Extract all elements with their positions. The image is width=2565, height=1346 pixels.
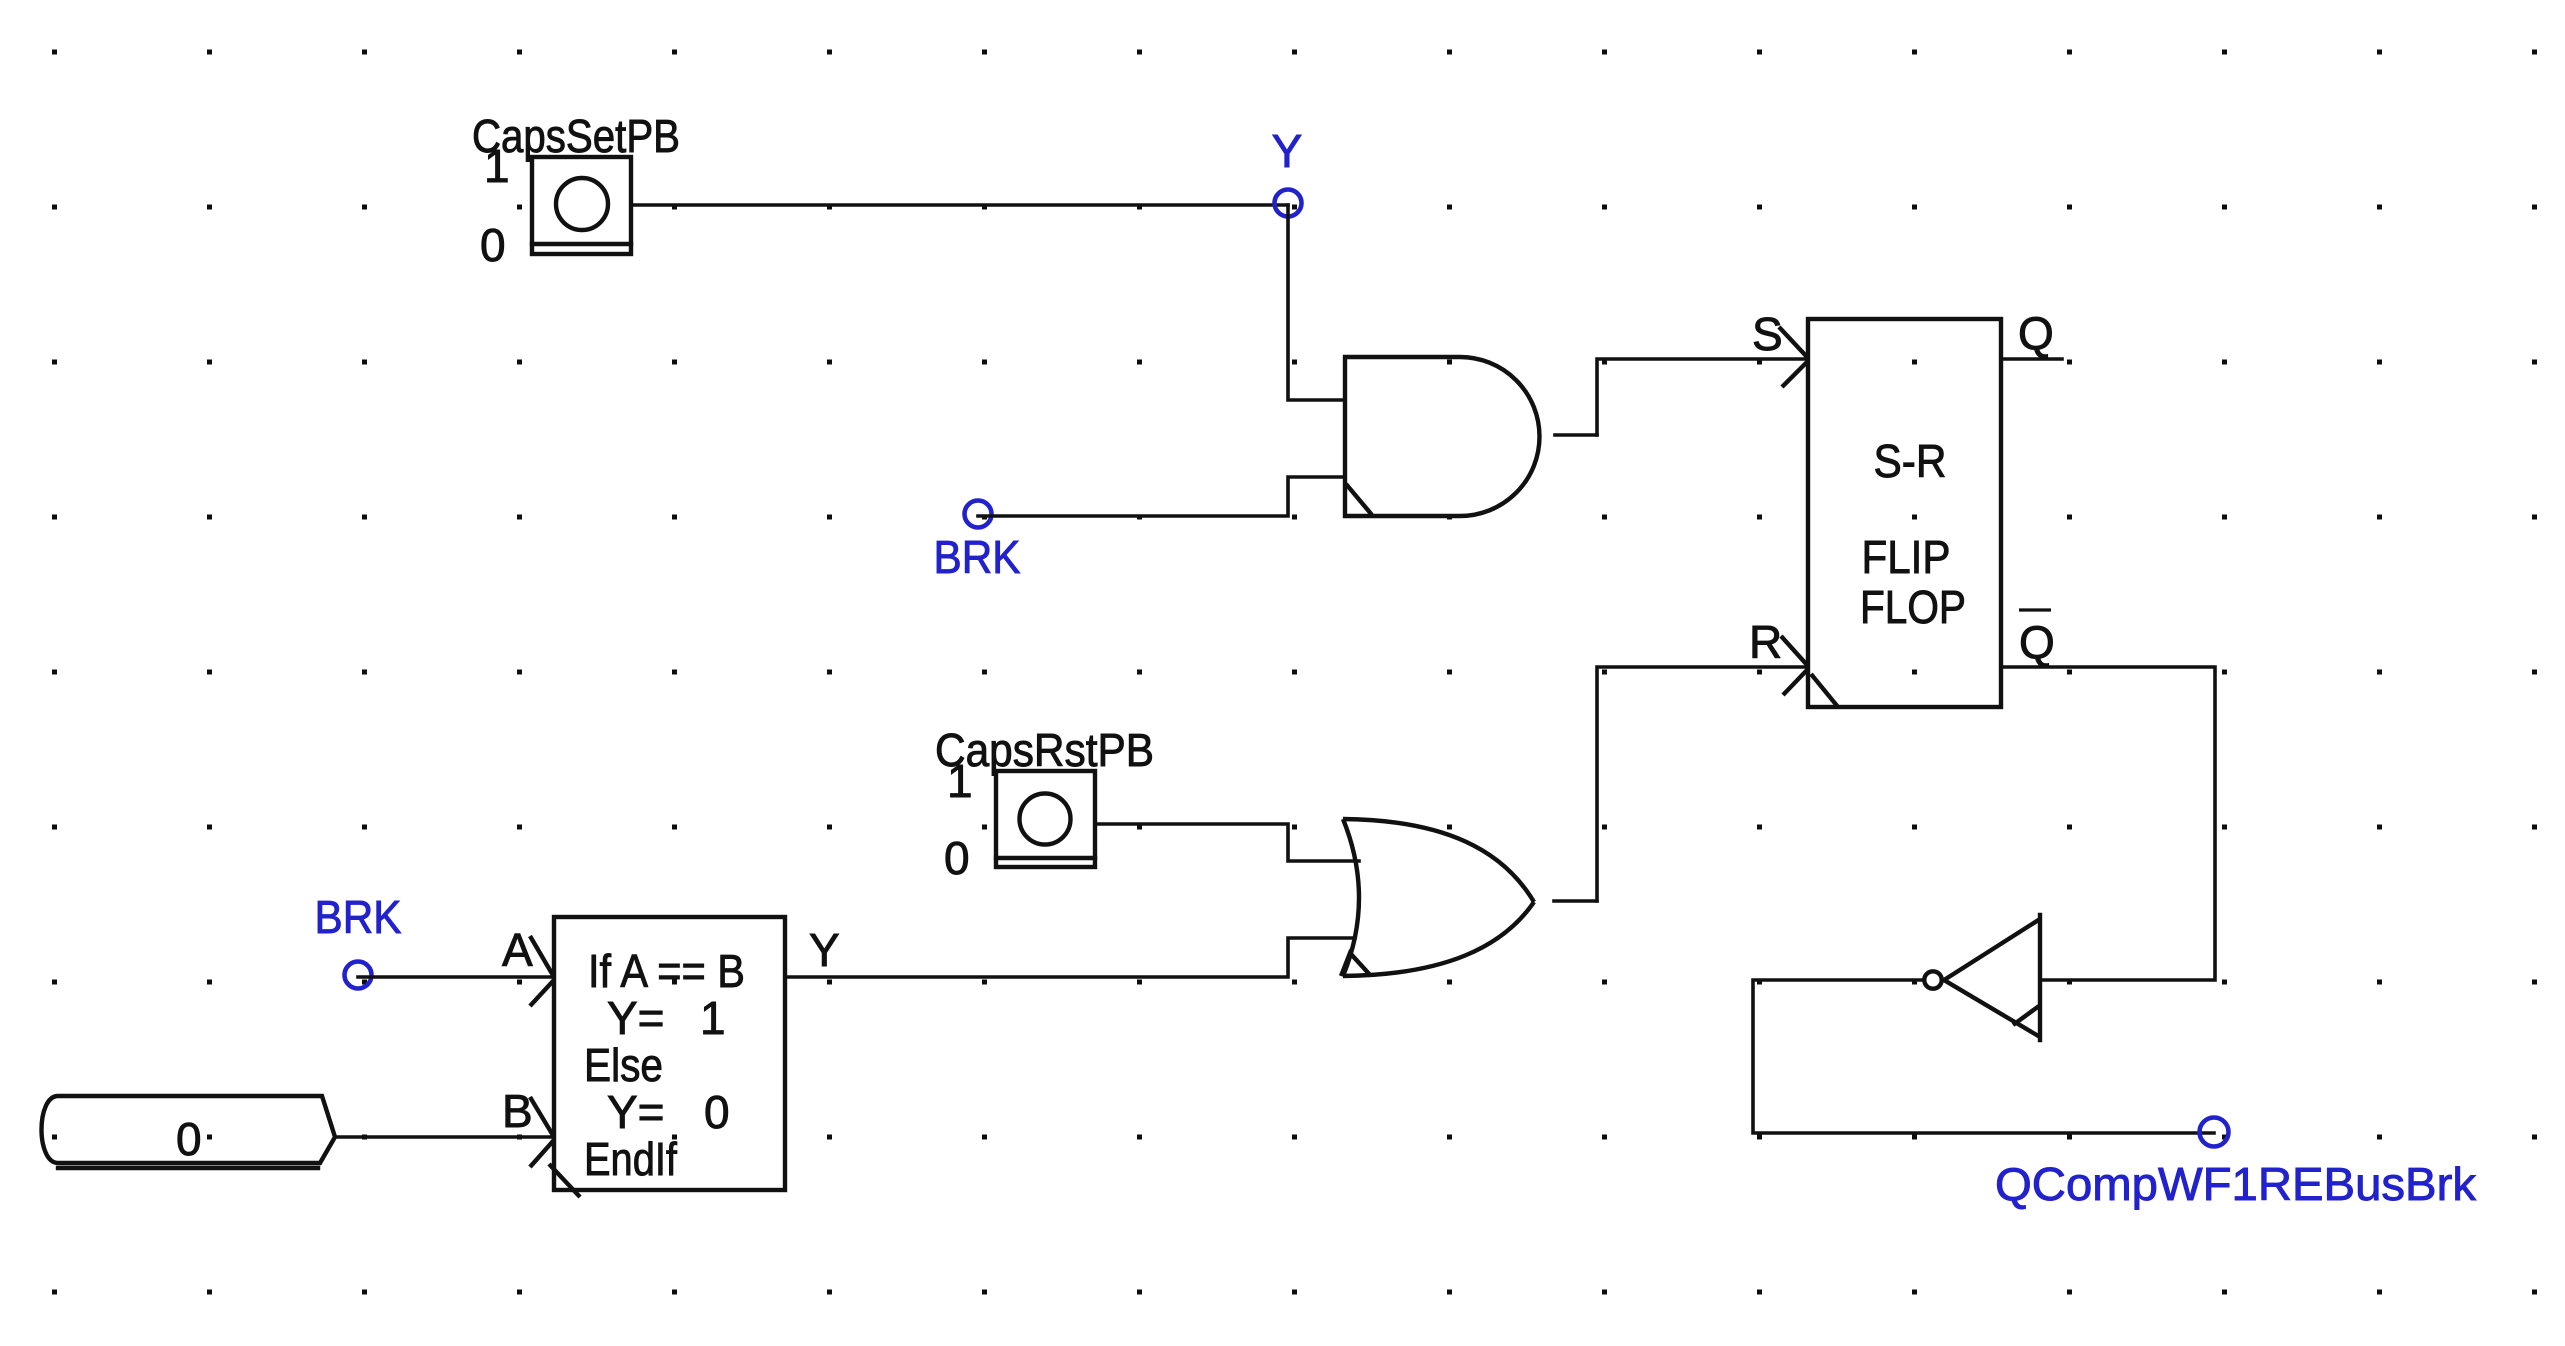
wire CapsSetPB to node Y [631, 203, 1288, 207]
comparator block If A == B [554, 917, 785, 1190]
S-R flip-flop U3 [1808, 319, 2001, 707]
constant 0 [42, 1096, 336, 1163]
svg-text:BRK: BRK [315, 891, 402, 943]
wire node BRK to AND gate lower input [978, 477, 1345, 516]
CapsSetPB body [532, 157, 631, 254]
svg-text:1: 1 [700, 992, 726, 1044]
svg-text:BRK: BRK [934, 531, 1021, 583]
wire node BRK to comparator input A [358, 975, 554, 979]
svg-text:FLIP: FLIP [1862, 531, 1951, 583]
wire flip-flop Q output stub [2001, 357, 2062, 361]
node Y [1275, 190, 1302, 217]
inverter bubble [1924, 971, 1941, 988]
OR gate U2 [1343, 819, 1359, 976]
AND gate U1 [1345, 357, 1539, 516]
svg-text:EndIf: EndIf [584, 1133, 677, 1185]
wire CapsRstPB to OR gate upper input [1095, 824, 1359, 861]
comparator corner tick [549, 1164, 580, 1197]
svg-text:Q: Q [2019, 616, 2055, 668]
svg-text:QCompWF1REBusBrk: QCompWF1REBusBrk [1995, 1158, 2477, 1210]
wire flip-flop Qbar output to inverter input [2001, 667, 2215, 980]
svg-text:Y: Y [809, 924, 840, 976]
CapsRstPB body [996, 771, 1095, 867]
flip-flop corner tick [1811, 674, 1838, 707]
svg-text:1: 1 [947, 755, 973, 807]
wire inverter output to node QCompWF1REBusBrk [1753, 980, 2214, 1133]
wire OR gate output to flip-flop R input [1554, 899, 1597, 903]
svg-text:Q: Q [2018, 307, 2054, 359]
svg-text:0: 0 [944, 832, 970, 884]
node BRK (upper) [965, 501, 992, 528]
svg-text:0: 0 [480, 219, 506, 271]
svg-text:S-R: S-R [1874, 435, 1947, 487]
svg-text:Y=: Y= [607, 992, 665, 1044]
OR gate input corner tick [1341, 953, 1371, 976]
inverter U4 [1944, 919, 2040, 1037]
wire AND gate output to flip-flop S input [1555, 433, 1597, 437]
svg-text:Y: Y [1272, 125, 1303, 177]
inverter corner tick [2013, 1006, 2039, 1025]
svg-text:FLOP: FLOP [1860, 581, 1966, 633]
svg-text:0: 0 [176, 1113, 202, 1165]
svg-text:A: A [502, 924, 533, 976]
wire constant 0 to comparator input B [335, 1135, 554, 1139]
node QCompWF1REBusBrk [2200, 1118, 2229, 1147]
svg-text:0: 0 [704, 1086, 730, 1138]
svg-text:S: S [1752, 308, 1783, 360]
svg-text:1: 1 [484, 140, 510, 192]
node BRK (lower) [345, 962, 372, 989]
wire node Y to AND gate upper input [1288, 205, 1345, 400]
wire comparator output Y to OR gate lower input [785, 938, 1355, 977]
svg-text:Else: Else [584, 1039, 663, 1091]
svg-text:Y=: Y= [607, 1086, 665, 1138]
svg-text:If A == B: If A == B [588, 945, 745, 997]
svg-text:B: B [502, 1085, 533, 1137]
svg-text:R: R [1749, 616, 1782, 668]
AND gate input corner tick [1346, 484, 1372, 515]
